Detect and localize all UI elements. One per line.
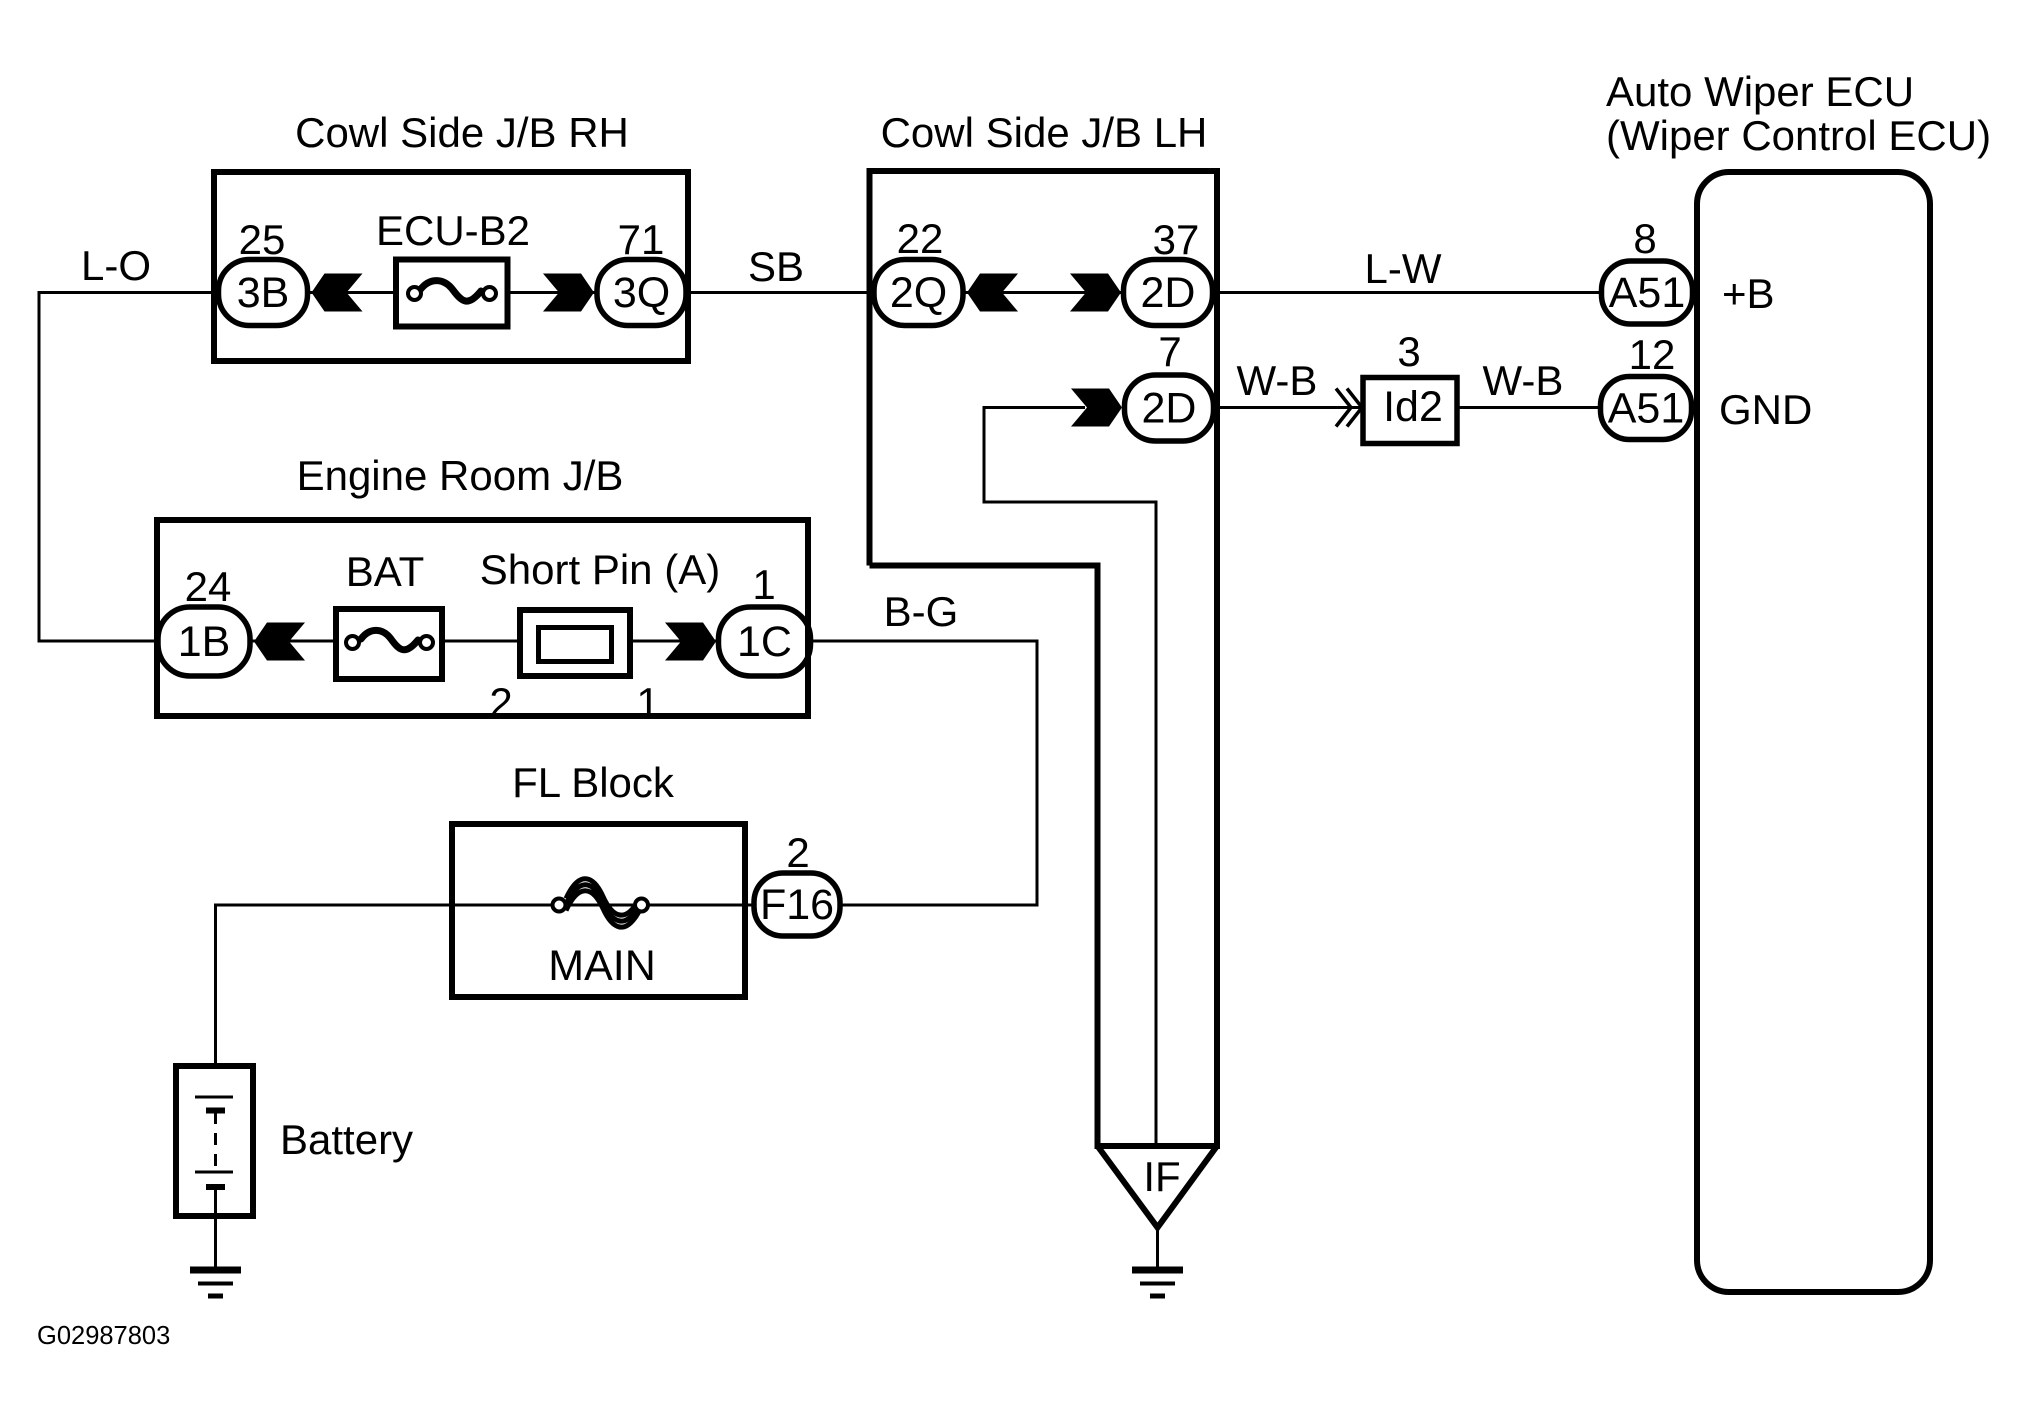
- svg-text:W-B: W-B: [1483, 357, 1564, 404]
- svg-text:2Q: 2Q: [890, 269, 947, 317]
- connector 1B (pin 24): [158, 607, 250, 676]
- arrow into 2D (right-pointing): [1070, 274, 1121, 312]
- svg-text:F16: F16: [760, 881, 834, 929]
- svg-text:Cowl Side J/B LH: Cowl Side J/B LH: [881, 109, 1208, 156]
- wire row2 W-B: A51(12) to 2D(7): [1122, 406, 1648, 409]
- svg-text:3B: 3B: [237, 269, 290, 317]
- connector 2D (pin 7): [1125, 375, 1214, 441]
- fuse ECU-B2: [396, 260, 508, 327]
- box Auto Wiper ECU: [1697, 172, 1930, 1292]
- svg-text:2: 2: [786, 829, 809, 876]
- connector A51 (pin 12): [1601, 377, 1692, 440]
- wire IF apex to ground: [1156, 1226, 1159, 1269]
- svg-text:25: 25: [239, 216, 286, 263]
- junction Id2 (pin 3): [1363, 378, 1457, 444]
- arrow into 1C (right-pointing): [665, 623, 716, 661]
- svg-text:1B: 1B: [178, 618, 231, 666]
- box Cowl Side J/B LH (stepped outline): [870, 171, 1218, 1146]
- svg-text:ECU-B2: ECU-B2: [376, 207, 530, 254]
- svg-text:3Q: 3Q: [613, 269, 670, 317]
- box Cowl Side J/B RH: [214, 172, 688, 361]
- wire battery bottom to ground: [214, 1216, 217, 1269]
- svg-text:Auto Wiper ECU: Auto Wiper ECU: [1606, 68, 1914, 115]
- wire FL row from battery corner to F16: [216, 905, 753, 1097]
- connector 2D (pin 37): [1124, 260, 1213, 326]
- svg-text:2D: 2D: [1141, 269, 1196, 317]
- wire row2 left branch: from arrow down and over to IF column: [984, 408, 1156, 1146]
- svg-text:A51: A51: [1608, 385, 1685, 433]
- svg-text:+B: +B: [1722, 270, 1775, 317]
- connector 3Q (pin 71): [597, 260, 686, 326]
- svg-text:IF: IF: [1143, 1153, 1180, 1200]
- wire L-O / row1 main horizontal wire: [39, 291, 1650, 294]
- IF funnel triangle: [1095, 1146, 1221, 1228]
- svg-text:8: 8: [1633, 215, 1656, 262]
- battery: [176, 1066, 253, 1218]
- fuse BAT: [336, 609, 442, 679]
- svg-text:24: 24: [185, 563, 232, 610]
- wire Engine Room row horizontal: [38, 640, 767, 643]
- svg-text:7: 7: [1158, 328, 1181, 375]
- svg-text:FL Block: FL Block: [512, 759, 675, 806]
- connector 1C (pin 1): [719, 607, 811, 676]
- box FL Block: [452, 824, 745, 997]
- svg-text:Id2: Id2: [1383, 383, 1443, 431]
- svg-text:37: 37: [1153, 216, 1200, 263]
- svg-text:Cowl Side J/B RH: Cowl Side J/B RH: [295, 109, 629, 156]
- connector 3B (pin 25): [219, 260, 308, 326]
- svg-text:B-G: B-G: [884, 588, 959, 635]
- svg-text:2D: 2D: [1142, 385, 1197, 433]
- svg-text:Short Pin (A): Short Pin (A): [480, 546, 720, 593]
- svg-text:L-O: L-O: [81, 242, 151, 289]
- arrow into 3Q (right-pointing): [543, 274, 594, 312]
- short pin (A) symbol: [520, 610, 630, 676]
- connector F16 (pin 2): [754, 873, 840, 936]
- svg-text:12: 12: [1629, 331, 1676, 378]
- arrow into 3B (left-pointing): [312, 274, 363, 312]
- wire B-G: 1C to corner, down to F16 row: [766, 641, 1037, 905]
- svg-text:1C: 1C: [737, 618, 792, 666]
- svg-text:A51: A51: [1609, 269, 1686, 317]
- svg-text:BAT: BAT: [346, 548, 425, 595]
- svg-text:22: 22: [897, 215, 944, 262]
- arrow into 2Q (left-pointing): [967, 274, 1018, 312]
- connector A51 (pin 8): [1602, 261, 1693, 324]
- svg-text:SB: SB: [748, 243, 804, 290]
- ground (IF): [1132, 1270, 1183, 1296]
- svg-text:G02987803: G02987803: [37, 1322, 170, 1350]
- box Engine Room J/B: [157, 520, 808, 716]
- svg-text:1: 1: [752, 561, 775, 608]
- svg-text:Battery: Battery: [280, 1116, 413, 1163]
- arrow into 2D pin7 (right-pointing): [1071, 389, 1122, 427]
- svg-text:GND: GND: [1719, 386, 1812, 433]
- svg-text:3: 3: [1397, 328, 1420, 375]
- svg-text:L-W: L-W: [1365, 245, 1442, 292]
- svg-text:W-B: W-B: [1237, 357, 1318, 404]
- fusible link MAIN: [553, 879, 649, 927]
- svg-text:Engine Room J/B: Engine Room J/B: [297, 452, 624, 499]
- splice double chevron: [1336, 389, 1362, 427]
- connector 2Q (pin 22): [874, 260, 963, 326]
- wire left vertical from L-O down to Engine Room row: [38, 291, 41, 641]
- svg-text:71: 71: [618, 216, 665, 263]
- ground (battery): [190, 1270, 241, 1296]
- arrow into 1B (left-pointing): [254, 623, 305, 661]
- svg-text:MAIN: MAIN: [548, 942, 656, 990]
- svg-text:(Wiper Control ECU): (Wiper Control ECU): [1606, 112, 1991, 159]
